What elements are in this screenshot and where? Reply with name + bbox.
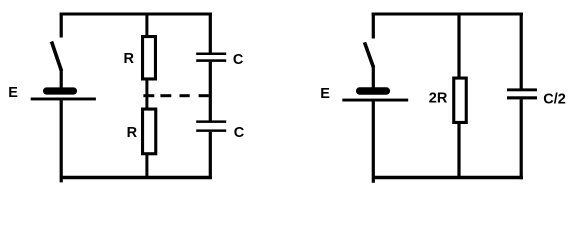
wire middle branch top (to 2R) — [457, 14, 460, 78]
wire below C/2 — [520, 99, 523, 179]
switch S2 blade — [365, 42, 374, 67]
resistor R2 — [143, 109, 156, 154]
capacitor C/2 bottom plate — [507, 96, 537, 99]
wire battery down to bottom (right) — [372, 101, 375, 183]
capacitor C/2 top plate — [507, 88, 537, 91]
wire switch to battery — [60, 69, 63, 89]
svg-text:C: C — [233, 52, 244, 68]
wire bottom (right circuit) — [374, 176, 523, 179]
wire between R1 and R2 — [145, 79, 148, 109]
resistor 2R — [454, 78, 467, 122]
dashed link wire segment 1 — [160, 94, 171, 97]
wire middle branch top stub — [145, 14, 148, 37]
svg-text:R: R — [124, 51, 135, 67]
wire right side top (to C/2) — [520, 13, 523, 90]
capacitor C2 bottom plate — [196, 129, 226, 132]
wire bottom (left circuit) — [62, 176, 212, 179]
node tick at resistor midpoint — [143, 94, 154, 97]
wire left side upper stub (to switch S2) — [372, 13, 375, 39]
switch S1 blade — [52, 42, 62, 72]
wire below R2 — [145, 154, 148, 178]
capacitor C1 bottom plate — [196, 59, 226, 62]
svg-text:C: C — [234, 125, 245, 141]
wire right side top (to C1) — [209, 13, 212, 54]
wire below C2 — [209, 132, 212, 179]
svg-text:E: E — [320, 86, 330, 102]
capacitor C1 top plate — [196, 53, 226, 56]
svg-text:2R: 2R — [429, 91, 448, 107]
wire between C1 and C2 — [209, 62, 212, 121]
battery E1 thin plate — [31, 98, 96, 101]
battery E2 thin plate — [342, 99, 408, 102]
wire battery down to bottom — [60, 100, 63, 182]
battery E1 thick plate — [43, 87, 77, 94]
dashed link wire segment 3 — [199, 94, 209, 97]
wire below 2R — [457, 123, 460, 179]
wire top (left circuit) — [60, 13, 212, 16]
capacitor C2 top plate — [196, 120, 226, 123]
dashed link wire segment 2 — [180, 94, 190, 97]
wire top (right circuit) — [372, 13, 523, 16]
svg-text:R: R — [127, 125, 138, 141]
resistor R1 — [143, 37, 156, 79]
svg-text:E: E — [8, 85, 18, 101]
battery E2 thick plate — [356, 87, 390, 94]
wire switch to battery E2 — [372, 66, 375, 89]
svg-text:C/2: C/2 — [543, 91, 566, 107]
wire left side upper stub (to switch) — [60, 13, 63, 38]
